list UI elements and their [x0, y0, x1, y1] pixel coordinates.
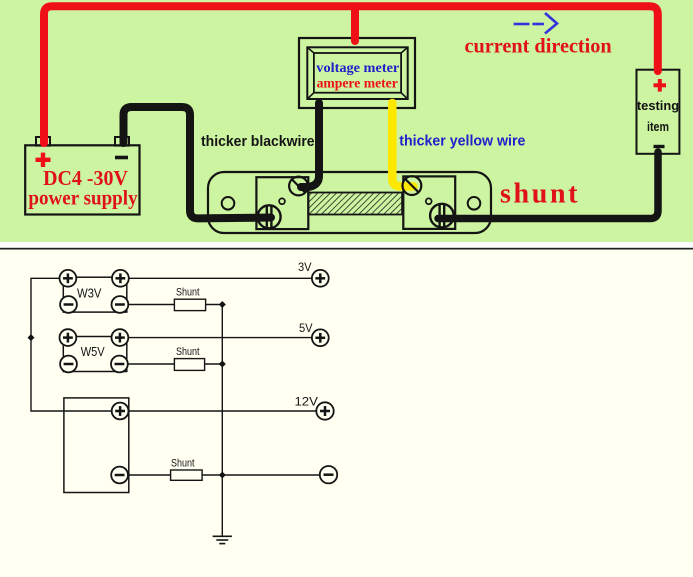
- battery W5V: [63, 337, 127, 372]
- wire black power supply to shunt: [124, 107, 272, 218]
- power supply minus sign: [115, 156, 128, 160]
- voltage meter frame corner diagonals: [307, 47, 407, 99]
- schematic wire shunt1 to bus: [206, 304, 223, 306]
- resistor shunt3: [171, 470, 203, 480]
- terminal W3V plus right: [112, 270, 129, 287]
- shunt screw top-right: [403, 176, 422, 195]
- schematic wire battery minus to shunt3: [120, 474, 171, 476]
- schematic wire shunt2 to bus: [205, 363, 223, 365]
- power supply terminal -: [115, 137, 129, 146]
- terminal W5V minus right: [111, 356, 128, 373]
- terminal W5V minus left: [60, 356, 77, 373]
- current direction arrow: [514, 13, 557, 34]
- svg-text:testing: testing: [637, 99, 679, 113]
- svg-text:Shunt: Shunt: [171, 458, 195, 470]
- shunt left block: [256, 177, 308, 229]
- shunt screw bottom-left: [258, 205, 281, 228]
- wire red branch to meter: [351, 6, 359, 41]
- background green panel: [0, 0, 693, 242]
- power supply plus sign: [36, 153, 51, 167]
- svg-text:thicker blackwire: thicker blackwire: [201, 133, 315, 150]
- schematic wire 12V line: [120, 410, 317, 412]
- output terminal 3V: [312, 270, 329, 287]
- testing item box: [637, 70, 680, 154]
- power supply terminal +: [36, 137, 50, 146]
- battery 12V block: [64, 398, 129, 493]
- background cream panel: [0, 250, 693, 577]
- resistor shunt1: [174, 299, 205, 310]
- wire black meter to shunt: [301, 103, 319, 187]
- voltage meter outer box: [299, 38, 415, 108]
- svg-text:Shunt: Shunt: [176, 346, 200, 358]
- background white strip: [0, 242, 693, 248]
- schematic wire 5V line: [120, 337, 312, 339]
- terminal battery minus: [111, 467, 128, 484]
- svg-text:item: item: [647, 120, 669, 134]
- wire black testing item to shunt: [438, 152, 658, 219]
- testing item plus sign: [654, 79, 667, 92]
- wire red positive main: [44, 6, 658, 143]
- shunt body rounded plate: [208, 172, 491, 233]
- svg-text:current direction: current direction: [465, 34, 613, 58]
- svg-text:5V: 5V: [299, 321, 313, 335]
- svg-text:voltage meter: voltage meter: [316, 60, 399, 75]
- schematic wire left bus: [31, 278, 120, 411]
- output terminal 12V: [316, 402, 333, 419]
- svg-text:W5V: W5V: [81, 345, 106, 359]
- shunt right block: [403, 176, 455, 229]
- shunt screw top-left: [289, 177, 308, 196]
- shunt right mount hole: [468, 197, 481, 210]
- terminal W3V plus left: [60, 270, 77, 287]
- battery W3V: [63, 277, 127, 312]
- svg-text:thicker yellow wire: thicker yellow wire: [399, 133, 525, 150]
- svg-text:ampere meter: ampere meter: [317, 76, 398, 91]
- junction shunt2 bus: [219, 361, 226, 368]
- junction W5V bus: [28, 334, 35, 341]
- shunt screw bottom-right: [430, 204, 454, 228]
- schematic wire shunt3 to minus terminal: [202, 474, 320, 476]
- terminal W5V plus right: [112, 329, 129, 346]
- ground symbol: [213, 536, 232, 543]
- shunt left mount hole: [222, 197, 235, 210]
- shunt left pilot hole: [279, 198, 285, 204]
- svg-text:power supply: power supply: [28, 186, 138, 210]
- svg-text:3V: 3V: [298, 260, 312, 274]
- junction shunt1 bus: [219, 301, 226, 308]
- terminal W5V plus left: [60, 329, 77, 346]
- schematic wire W3V to shunt1: [120, 304, 174, 306]
- shunt right pilot hole: [426, 198, 432, 204]
- shunt resistive element hatched: [308, 193, 402, 215]
- separator line: [0, 248, 693, 250]
- svg-text:12V: 12V: [295, 395, 318, 409]
- schematic wire W5V to shunt2: [119, 363, 174, 365]
- svg-text:W3V: W3V: [77, 287, 102, 301]
- svg-text:shunt: shunt: [500, 179, 580, 210]
- voltage meter frame inner bevel: [314, 53, 401, 93]
- output terminal minus: [320, 466, 337, 483]
- resistor shunt2: [174, 359, 204, 371]
- schematic wire 3V line: [120, 277, 312, 279]
- svg-text:Shunt: Shunt: [176, 287, 200, 299]
- terminal W3V minus right: [112, 296, 129, 313]
- testing item minus sign: [654, 145, 665, 148]
- output terminal 5V: [312, 329, 329, 346]
- power supply box: [25, 145, 139, 214]
- schematic wire vertical bus: [221, 305, 223, 537]
- voltage meter frame outer bevel: [307, 47, 407, 99]
- terminal W3V minus left: [60, 296, 77, 313]
- junction shunt3 bus: [219, 472, 226, 479]
- terminal battery plus: [112, 403, 129, 420]
- wire yellow meter to shunt: [392, 103, 413, 186]
